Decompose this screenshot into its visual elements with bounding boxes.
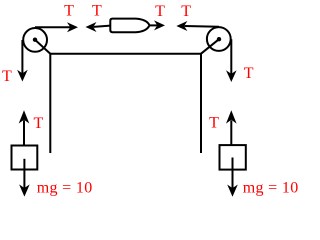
svg-text:mg = 10: mg = 10 [243, 180, 299, 197]
svg-text:T: T [181, 3, 191, 20]
svg-text:T: T [92, 3, 102, 20]
svg-text:T: T [209, 114, 219, 131]
svg-text:mg = 10: mg = 10 [37, 180, 93, 197]
svg-text:T: T [155, 3, 165, 20]
svg-text:T: T [34, 115, 44, 132]
svg-text:T: T [244, 65, 254, 82]
svg-text:T: T [2, 68, 12, 85]
svg-text:T: T [64, 3, 74, 20]
